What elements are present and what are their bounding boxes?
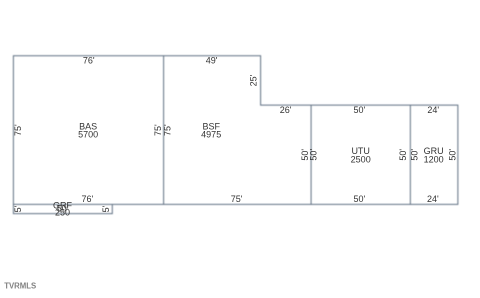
svg-text:TVRMLS: TVRMLS: [4, 281, 36, 291]
svg-text:50': 50': [398, 149, 408, 161]
svg-text:50': 50': [410, 149, 420, 161]
svg-text:50': 50': [448, 149, 458, 161]
svg-text:75': 75': [13, 124, 23, 136]
svg-text:49': 49': [206, 56, 218, 66]
svg-text:76': 76': [82, 194, 94, 204]
svg-text:75': 75': [162, 124, 172, 136]
svg-text:5': 5': [101, 205, 111, 212]
svg-text:75': 75': [231, 194, 243, 204]
svg-text:50': 50': [309, 149, 319, 161]
svg-text:1200: 1200: [424, 154, 444, 164]
svg-text:250: 250: [55, 208, 70, 218]
svg-text:50': 50': [354, 194, 366, 204]
svg-text:5700: 5700: [78, 130, 98, 140]
svg-text:5': 5': [13, 205, 23, 212]
svg-text:26': 26': [280, 105, 292, 115]
svg-text:24': 24': [427, 105, 439, 115]
svg-text:24': 24': [427, 194, 439, 204]
svg-text:50': 50': [354, 105, 366, 115]
svg-text:2500: 2500: [351, 154, 371, 164]
svg-text:76': 76': [83, 56, 95, 66]
svg-text:25': 25': [249, 74, 259, 86]
svg-text:4975: 4975: [201, 130, 221, 140]
